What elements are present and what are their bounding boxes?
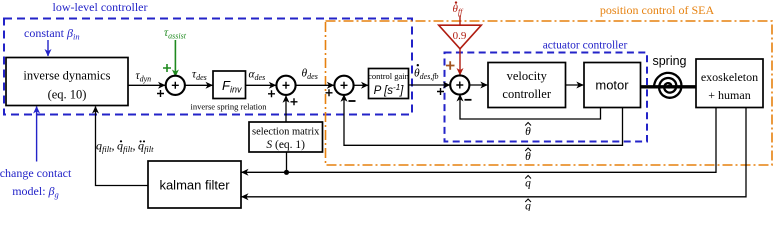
box: Finv: [213, 71, 246, 99]
wire: selection matrix to sum2: [285, 96, 287, 122]
svg-text:velocity: velocity: [507, 69, 548, 83]
svg-text:P [s-1]: P [s-1]: [374, 83, 405, 97]
sign: minus bottom-right of sum3: [349, 100, 356, 102]
wire: sum4 to velocity controller: [470, 84, 488, 86]
sign: red plus top-left of sum4: [446, 61, 455, 69]
sign: plus left of sum4: [437, 88, 444, 95]
wire: inverse dynamics to sum1: [128, 84, 165, 86]
wire: motor to exoskeleton through spring (thick): [641, 85, 697, 88]
box: velocity controller: [488, 63, 566, 108]
node: junction on q-hat line: [284, 170, 289, 175]
blue arrow: constant beta_in into inverse dynamics: [47, 40, 49, 56]
wire: sum1 to Finv: [185, 84, 213, 86]
sum3: [334, 76, 353, 95]
box: exoskeleton + human: [696, 59, 763, 108]
spring symbol (spiral): [654, 73, 681, 98]
svg-text:θ: θ: [525, 126, 531, 138]
box: inverse dynamics: [6, 58, 128, 106]
sum1: [166, 76, 185, 95]
blue arrow: change contact model into inverse dynamics: [36, 107, 38, 162]
sum2: [276, 76, 295, 95]
red arrow: triangle to sum4: [459, 49, 461, 75]
svg-text:θdes: θdes: [302, 68, 318, 82]
svg-text:q: q: [525, 201, 531, 212]
svg-text:low-level controller: low-level controller: [53, 0, 148, 14]
svg-text:S (eq. 1): S (eq. 1): [266, 139, 305, 151]
svg-text:0.9: 0.9: [453, 30, 467, 42]
sign: minus bottom-right of sum4: [465, 99, 472, 101]
wire: q-hat feedback 1 (exoskeleton to kalman): [242, 108, 717, 173]
svg-text:kalman filter: kalman filter: [159, 178, 230, 193]
wire: q-hat to selection matrix: [286, 152, 288, 172]
wire: velocity controller to motor: [566, 84, 584, 86]
svg-text:motor: motor: [595, 78, 629, 93]
svg-text:spring: spring: [652, 54, 686, 68]
svg-text:q: q: [525, 178, 531, 190]
svg-text:inverse dynamics: inverse dynamics: [23, 69, 110, 83]
box: kalman filter: [148, 161, 241, 208]
svg-text:control gain: control gain: [368, 71, 410, 81]
svg-text:model: βg: model: βg: [12, 184, 59, 200]
wire: kalman filter output to inverse dynamics: [96, 107, 149, 186]
wire: theta-hat outer feedback (motor to sum3): [344, 95, 623, 146]
svg-text:τassist: τassist: [164, 27, 187, 41]
svg-text:qfilt,: qfilt,: [96, 139, 114, 155]
sign: plus left of sum2: [268, 90, 275, 97]
low-level controller dashed box: [4, 19, 412, 115]
svg-text:θdes,fb: θdes,fb: [414, 68, 439, 82]
svg-text:τdyn: τdyn: [136, 70, 152, 84]
sign: plus left of sum1: [157, 90, 164, 97]
wire: sum3 to control gain: [354, 84, 368, 86]
svg-text:θ: θ: [525, 151, 531, 163]
wire: control gain to sum4: [409, 84, 450, 86]
svg-text:τdes: τdes: [192, 69, 207, 83]
svg-text:controller: controller: [502, 87, 551, 101]
box: motor: [584, 63, 641, 108]
green arrow: tau_assist into sum1: [174, 40, 176, 77]
red wire: theta_dot_ff to triangle: [459, 16, 461, 26]
svg-text:actuator controller: actuator controller: [543, 40, 628, 52]
svg-text:selection matrix: selection matrix: [252, 127, 320, 138]
svg-text:+ human: + human: [708, 88, 750, 102]
sign: plus left of sum3: [326, 89, 333, 96]
svg-text:θff: θff: [453, 3, 465, 17]
svg-text:αdes: αdes: [249, 69, 266, 83]
svg-text:(eq. 10): (eq. 10): [48, 88, 87, 102]
svg-text:change contact: change contact: [0, 166, 72, 180]
wire: theta-hat inner feedback (motor to sum4): [460, 95, 601, 120]
wire: q-hat feedback 2 (exoskeleton to kalman): [242, 108, 747, 197]
gain triangle 0.9: [439, 25, 482, 49]
svg-text:qfilt,: qfilt,: [117, 139, 135, 155]
position control of SEA dash-dot box: [326, 21, 773, 165]
actuator controller dashed box: [445, 53, 648, 142]
box: control gain: [369, 69, 409, 99]
svg-text:exoskeleton: exoskeleton: [701, 70, 758, 84]
svg-text:position control of SEA: position control of SEA: [600, 3, 715, 17]
wire: sum2 to sum3: [296, 84, 334, 86]
sum4: [450, 75, 469, 94]
svg-text:inverse spring relation: inverse spring relation: [190, 102, 267, 112]
sign: plus bottom-right of sum2: [291, 98, 298, 105]
sign: green plus top-left of sum1: [163, 64, 171, 72]
svg-text:constant βin: constant βin: [24, 26, 80, 42]
wire: Finv to sum2: [246, 84, 276, 86]
box: selection matrix: [249, 122, 323, 152]
